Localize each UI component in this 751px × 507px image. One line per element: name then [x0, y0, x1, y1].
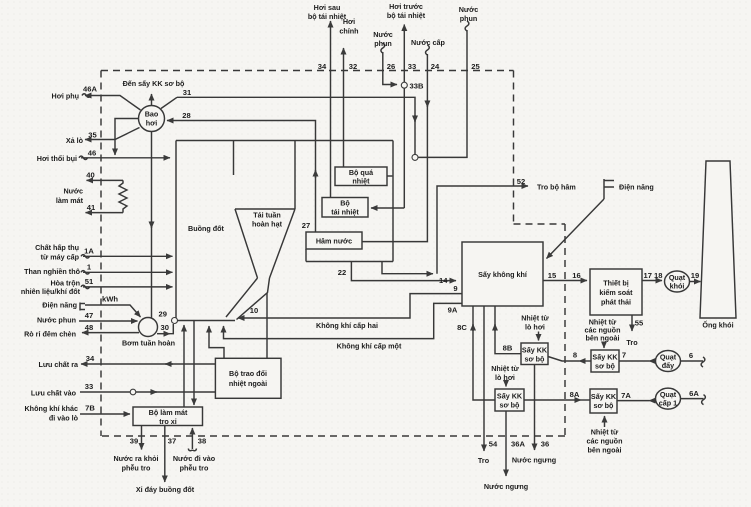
- superheater outlet stub to wall: [387, 175, 392, 177]
- svg-text:Nước ra khỏi: Nước ra khỏi: [113, 454, 158, 463]
- svg-text:32: 32: [349, 62, 357, 71]
- svg-text:Bơm tuần hoàn: Bơm tuần hoàn: [122, 339, 175, 348]
- wire 39 water out of ash hopper: [141, 426, 143, 450]
- svg-text:54: 54: [489, 440, 498, 449]
- wire kWh pump power: [85, 305, 141, 317]
- svg-text:Rò rỉ đêm chèn: Rò rỉ đêm chèn: [24, 330, 76, 339]
- wire 9A primary air Không khí cấp một: [224, 303, 463, 338]
- svg-text:làm mát: làm mát: [56, 196, 84, 205]
- wire 51 fuel gas mix Hòa trộn nhiên liệu khí đốt: [83, 286, 173, 288]
- svg-text:9: 9: [453, 284, 457, 293]
- svg-text:14: 14: [439, 276, 448, 285]
- lower left preheater box Sấy KK sơ bộ: [495, 389, 524, 411]
- svg-text:26: 26: [387, 62, 395, 71]
- svg-text:36: 36: [541, 440, 549, 449]
- emission control box Thiết bị kiểm soát phát thải: [590, 269, 642, 315]
- svg-text:9A: 9A: [448, 306, 458, 315]
- svg-text:khói: khói: [670, 282, 685, 291]
- wire 17 18 to ID fan: [642, 280, 662, 282]
- wire 1A sorbent Chất hấp thụ từ máy cấp: [83, 255, 173, 257]
- svg-text:Nước ngưng: Nước ngưng: [512, 456, 556, 465]
- svg-text:34: 34: [86, 354, 95, 363]
- svg-text:Bộ: Bộ: [340, 199, 350, 208]
- svg-text:Bộ làm mát: Bộ làm mát: [149, 408, 188, 417]
- svg-text:Không khí cấp một: Không khí cấp một: [337, 342, 402, 351]
- svg-text:6: 6: [689, 351, 693, 360]
- wire 7 FD fan to preheater: [649, 360, 656, 362]
- stack Ống khói: [700, 161, 736, 318]
- wire 1 coal Than nghiền thô: [83, 271, 173, 273]
- svg-text:Tro: Tro: [478, 456, 490, 465]
- svg-text:sơ bộ: sơ bộ: [525, 355, 545, 364]
- wire 24 feedwater Nước cấp: [362, 54, 427, 242]
- svg-text:sơ bộ: sơ bộ: [595, 362, 615, 371]
- wire 38 water into ash hopper: [191, 428, 193, 449]
- svg-text:Hơi trước: Hơi trước: [389, 2, 423, 11]
- wire furnace bottom to ash cooler: [183, 325, 185, 407]
- wire EHE solids return to furnace: [209, 326, 224, 358]
- svg-text:27: 27: [302, 221, 310, 230]
- svg-text:31: 31: [183, 88, 192, 97]
- ash cooler box Bộ làm mát tro xỉ: [133, 407, 203, 426]
- svg-text:tro xỉ: tro xỉ: [159, 417, 177, 426]
- wire 37 bottom ash Xỉ đáy buồng đốt: [164, 426, 166, 483]
- svg-text:16: 16: [572, 271, 580, 280]
- svg-text:đẩy: đẩy: [662, 361, 674, 370]
- cyclone funnel Tái tuần hoàn hạt: [226, 141, 295, 320]
- svg-text:Sấy KK: Sấy KK: [591, 392, 617, 401]
- svg-text:Không khí cấp hai: Không khí cấp hai: [316, 321, 378, 330]
- svg-text:tái nhiệt: tái nhiệt: [331, 208, 359, 217]
- svg-text:48: 48: [85, 323, 93, 332]
- svg-text:nhiệt ngoài: nhiệt ngoài: [229, 379, 267, 388]
- svg-text:46: 46: [88, 149, 96, 158]
- svg-text:8A: 8A: [570, 390, 580, 399]
- svg-text:7A: 7A: [621, 391, 631, 400]
- svg-text:Nước phun: Nước phun: [37, 316, 76, 325]
- upper left preheater box Sấy KK sơ bộ: [521, 343, 548, 365]
- svg-text:Nước: Nước: [459, 5, 479, 14]
- svg-text:chính: chính: [339, 27, 358, 36]
- wire 7A PA fan to preheater: [649, 400, 656, 402]
- svg-text:hoàn hạt: hoàn hạt: [252, 220, 283, 229]
- svg-text:40: 40: [86, 171, 94, 180]
- node furnace bottom corner: [172, 318, 178, 324]
- wire 8C from lower preheater into air heater: [473, 306, 495, 400]
- wire 48 seal leakage Rò rỉ đêm chèn: [82, 332, 139, 334]
- PA fan Quạt cấp 1: [656, 388, 681, 409]
- wire 33 cold reheat Hơi trước bộ tái nhiệt: [403, 31, 405, 208]
- svg-text:8C: 8C: [457, 323, 467, 332]
- svg-text:1A: 1A: [84, 247, 94, 256]
- svg-text:Nhiệt từ: Nhiệt từ: [521, 314, 549, 323]
- svg-text:lò hơi: lò hơi: [525, 323, 545, 332]
- svg-text:33B: 33B: [410, 82, 424, 91]
- wire 55 ash from emission control Tro: [631, 315, 633, 331]
- svg-text:30: 30: [161, 323, 169, 332]
- svg-text:Ống khói: Ống khói: [702, 320, 733, 330]
- FD fan Quạt đẩy: [656, 351, 681, 372]
- svg-text:Nhiệt từ: Nhiệt từ: [491, 364, 519, 373]
- svg-text:8: 8: [573, 351, 577, 360]
- svg-text:52: 52: [517, 177, 525, 186]
- air heater box Sấy không khí: [462, 242, 543, 306]
- wire cyclone solids to EHE: [266, 293, 268, 358]
- wire 47 injection water Nước phun left: [79, 320, 138, 322]
- wire 29 downcomer drum to pump: [151, 132, 153, 319]
- svg-text:Nước đi vào: Nước đi vào: [173, 454, 216, 463]
- svg-text:Hơi thổi bụi: Hơi thổi bụi: [37, 154, 77, 163]
- svg-text:24: 24: [431, 62, 440, 71]
- svg-text:nhiệt: nhiệt: [352, 177, 370, 186]
- svg-text:41: 41: [87, 203, 96, 212]
- svg-text:Sấy KK: Sấy KK: [522, 346, 548, 355]
- svg-text:cấp 1: cấp 1: [659, 399, 677, 408]
- upper right preheater box Sấy KK sơ bộ: [591, 350, 619, 372]
- wire 6 air inlet: [681, 360, 704, 362]
- wire to preliminary air heater Đến sấy KK sơ bộ: [151, 94, 153, 106]
- svg-text:36A: 36A: [511, 440, 525, 449]
- svg-text:bên ngoài: bên ngoài: [586, 334, 620, 343]
- svg-text:phễu tro: phễu tro: [122, 464, 151, 473]
- circulation pump Bơm tuần hoàn: [139, 318, 158, 337]
- svg-text:47: 47: [85, 311, 93, 320]
- svg-text:Hơi phụ: Hơi phụ: [52, 92, 79, 101]
- svg-text:Sấy KK: Sấy KK: [592, 353, 618, 362]
- reheater box Bộ tái nhiệt: [322, 198, 368, 218]
- svg-text:sơ bộ: sơ bộ: [500, 401, 520, 410]
- svg-text:từ máy cấp: từ máy cấp: [41, 253, 80, 262]
- external heat exchanger box Bộ trao đổi nhiệt ngoài: [215, 358, 281, 398]
- wire 8A to lower right preheater: [524, 399, 581, 401]
- wire 34 hot reheat Hơi sau bộ tái nhiệt: [330, 21, 332, 198]
- svg-text:Nước ngưng: Nước ngưng: [484, 482, 528, 491]
- svg-text:Nước cấp: Nước cấp: [411, 38, 445, 47]
- wire 35 blowdown Xả lò: [85, 128, 140, 140]
- wire 33 fluid in Lưu chất vào: [80, 391, 215, 393]
- svg-text:46A: 46A: [83, 85, 97, 94]
- wire 31 drum to junction: [177, 97, 415, 154]
- svg-text:lò hơi: lò hơi: [495, 373, 515, 382]
- external heat label lower Nhiệt từ các nguồn bên ngoài: [604, 416, 606, 427]
- svg-text:37: 37: [168, 437, 176, 446]
- svg-text:nhiên liệu/khí đốt: nhiên liệu/khí đốt: [21, 287, 81, 296]
- svg-text:Sấy không khí: Sấy không khí: [478, 270, 528, 279]
- wire 19 to stack: [690, 281, 701, 283]
- system boundary dashed envelope: [101, 71, 565, 437]
- svg-text:Bao: Bao: [145, 110, 159, 119]
- svg-text:Nhiệt từ: Nhiệt từ: [591, 428, 619, 437]
- svg-text:28: 28: [182, 111, 190, 120]
- wire 27 28 economizer to drum: [167, 121, 316, 233]
- svg-text:Chất hấp thụ: Chất hấp thụ: [35, 243, 79, 252]
- wire 36 condensate from upper preheater Nước ngưng: [534, 365, 536, 451]
- svg-text:Lưu chất vào: Lưu chất vào: [31, 389, 77, 398]
- svg-text:22: 22: [338, 268, 346, 277]
- svg-text:phun: phun: [374, 39, 392, 48]
- svg-text:19: 19: [691, 271, 699, 280]
- wire 25 spray water Nước phun right: [418, 30, 467, 157]
- node on line 31/25 junction: [412, 154, 418, 160]
- svg-text:38: 38: [198, 437, 206, 446]
- svg-text:Lưu chất ra: Lưu chất ra: [38, 360, 79, 369]
- svg-text:bên ngoài: bên ngoài: [588, 446, 622, 455]
- svg-text:các nguồn: các nguồn: [587, 437, 623, 446]
- furnace enclosure Buồng đốt walls: [176, 141, 393, 321]
- svg-text:8B: 8B: [503, 344, 513, 353]
- wire 26 spray water Nước phun: [383, 52, 397, 85]
- svg-text:17 18: 17 18: [643, 271, 662, 280]
- electric power symbol Điện năng right: [604, 179, 614, 199]
- wire 46 sootblowing steam Hơi thổi bụi: [81, 157, 170, 159]
- svg-text:6A: 6A: [689, 389, 699, 398]
- wire 10 secondary air into furnace Không khí cấp hai: [238, 294, 462, 318]
- wire 34 fluid out Lưu chất ra: [81, 363, 215, 365]
- svg-text:Xỉ đáy buồng đốt: Xỉ đáy buồng đốt: [136, 485, 195, 494]
- svg-text:Không khí khác: Không khí khác: [24, 404, 78, 413]
- svg-text:51: 51: [85, 277, 94, 286]
- cooling water coil 40 41 Nước làm mát: [87, 179, 124, 181]
- svg-text:Thiết bị: Thiết bị: [603, 279, 629, 288]
- economizer box Hâm nước: [306, 232, 362, 249]
- svg-text:7B: 7B: [85, 404, 95, 413]
- svg-text:phát thải: phát thải: [601, 298, 631, 307]
- svg-text:33: 33: [85, 382, 93, 391]
- wire 8 from right preheater to upper left preheater: [579, 360, 591, 362]
- svg-text:Tro bộ hâm: Tro bộ hâm: [537, 183, 576, 192]
- superheater box Bộ quá nhiệt: [335, 167, 387, 186]
- wire 54 ash from air heater Tro: [483, 306, 485, 451]
- svg-text:kWh: kWh: [102, 295, 118, 304]
- svg-text:39: 39: [130, 437, 138, 446]
- svg-text:Than nghiền thô: Than nghiền thô: [24, 267, 81, 276]
- wire electric power into air heater: [547, 199, 605, 259]
- svg-text:Hâm nước: Hâm nước: [316, 237, 352, 246]
- node on wire 33: [130, 389, 136, 395]
- wire furnace bottom to ash cooler arrowed: [193, 321, 195, 406]
- wire 22 manifold branches: [382, 262, 433, 274]
- svg-text:Nước: Nước: [373, 30, 393, 39]
- svg-text:10: 10: [250, 306, 258, 315]
- node 33B spray junction: [401, 82, 407, 88]
- wire 52 economizer ash Tro bộ hâm: [437, 186, 528, 274]
- wire 31 diagonal from drum: [161, 97, 177, 108]
- svg-text:33: 33: [408, 62, 416, 71]
- wire 15 16 flue gas to emission control: [543, 280, 587, 282]
- wire 6A air inlet: [681, 398, 704, 400]
- svg-text:hơi: hơi: [146, 119, 158, 128]
- svg-text:phễu tro: phễu tro: [180, 464, 209, 473]
- wire drum left stub down to 46: [115, 119, 139, 156]
- ID fan Quạt khói: [665, 271, 690, 292]
- svg-text:đi vào lò: đi vào lò: [49, 414, 79, 423]
- svg-text:Tro: Tro: [626, 338, 638, 347]
- svg-text:35: 35: [88, 131, 97, 140]
- wire 36A condensate from lower preheater Nước ngưng: [505, 411, 507, 476]
- svg-text:sơ bộ: sơ bộ: [594, 401, 614, 410]
- wire 7B other air entering Không khí khác đi vào lò: [80, 413, 130, 415]
- svg-text:Bộ trao đổi: Bộ trao đổi: [229, 369, 267, 378]
- electric power symbol Điện năng left: [80, 303, 85, 311]
- svg-text:Tái tuần: Tái tuần: [253, 211, 281, 220]
- svg-text:34: 34: [318, 62, 327, 71]
- wire 32 main steam Hơi chính: [343, 48, 345, 167]
- svg-text:7: 7: [622, 351, 626, 360]
- svg-text:Buồng đốt: Buồng đốt: [188, 224, 225, 233]
- svg-text:15: 15: [548, 271, 557, 280]
- wire 8B from upper preheater into air heater: [495, 306, 521, 354]
- svg-text:Điện năng: Điện năng: [619, 183, 654, 192]
- svg-text:bộ tái nhiệt: bộ tái nhiệt: [308, 12, 347, 21]
- svg-text:55: 55: [635, 319, 644, 328]
- svg-text:25: 25: [471, 62, 480, 71]
- svg-text:Đến sấy KK sơ bộ: Đến sấy KK sơ bộ: [123, 79, 185, 88]
- svg-text:Sấy KK: Sấy KK: [497, 392, 523, 401]
- svg-text:Nước: Nước: [63, 187, 83, 196]
- steam drum Bao hơi: [139, 106, 165, 132]
- svg-text:kiểm soát: kiểm soát: [599, 288, 633, 297]
- svg-text:bộ tái nhiệt: bộ tái nhiệt: [387, 11, 426, 20]
- wire 46A auxiliary steam Hơi phụ: [85, 96, 141, 111]
- svg-text:phun: phun: [460, 14, 478, 23]
- svg-text:Xả lò: Xả lò: [66, 136, 84, 145]
- wire pump outlet: [157, 333, 170, 335]
- svg-text:Điện năng: Điện năng: [42, 301, 77, 310]
- svg-text:Hơi sau: Hơi sau: [314, 3, 341, 12]
- lower right preheater box Sấy KK sơ bộ: [590, 389, 617, 413]
- svg-text:29: 29: [159, 310, 167, 319]
